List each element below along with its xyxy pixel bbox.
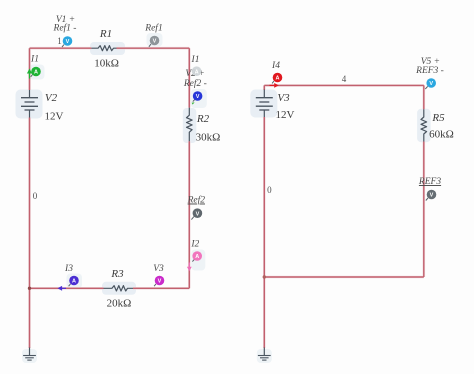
resistor R1 tile <box>90 42 125 55</box>
probe I3 tile <box>67 274 83 289</box>
ground left <box>23 348 36 361</box>
svg-text:V: V <box>66 39 70 45</box>
wire right circuit top <box>264 84 424 86</box>
svg-text:60kΩ: 60kΩ <box>429 129 454 141</box>
ground right <box>258 348 271 361</box>
svg-text:REF3: REF3 <box>418 177 441 187</box>
node junction left circuit <box>28 287 31 290</box>
resistor R1 <box>91 28 119 70</box>
ghost probe <box>192 66 202 76</box>
ground left tile <box>22 349 37 363</box>
svg-text:0: 0 <box>267 185 272 195</box>
svg-text:A: A <box>276 76 280 82</box>
svg-text:A: A <box>195 69 199 75</box>
resistor R5 <box>421 109 454 141</box>
svg-text:R2: R2 <box>196 113 210 125</box>
wire left circuit bottom <box>30 287 190 289</box>
wire left circuit left vertical <box>29 48 31 348</box>
current arrow I3 <box>58 286 67 291</box>
voltage source V3 tile <box>250 90 277 118</box>
svg-text:12V: 12V <box>276 109 295 121</box>
probe Ref2 <box>191 208 202 219</box>
svg-text:R5: R5 <box>431 112 445 124</box>
svg-text:A: A <box>34 70 38 76</box>
svg-text:0: 0 <box>33 191 38 201</box>
current arrow I1 <box>27 69 32 79</box>
ground right tile <box>257 349 272 363</box>
probe V5 <box>425 78 436 89</box>
svg-text:V: V <box>153 39 157 45</box>
resistor R2 <box>187 108 221 144</box>
probe I1 tile <box>29 65 45 80</box>
svg-text:1: 1 <box>57 36 62 46</box>
svg-text:REF3 -: REF3 - <box>415 66 444 76</box>
svg-text:V: V <box>196 211 200 217</box>
svg-text:I4: I4 <box>271 61 280 71</box>
probe V1 <box>62 36 72 47</box>
svg-text:Ref2 -: Ref2 - <box>183 78 207 89</box>
svg-text:R3: R3 <box>110 268 124 280</box>
voltage source V2 <box>21 90 64 122</box>
probe V2 <box>192 91 203 104</box>
svg-text:V3: V3 <box>153 264 164 274</box>
probe REF3 <box>426 190 437 201</box>
voltage source V2 tile <box>16 90 43 119</box>
svg-text:I2: I2 <box>190 239 199 249</box>
wire left circuit right vertical <box>188 48 190 288</box>
svg-text:20kΩ: 20kΩ <box>107 298 132 310</box>
svg-text:V: V <box>429 81 433 87</box>
wire right circuit bottom <box>264 276 424 278</box>
probe I4 <box>272 73 282 84</box>
resistor R2 tile <box>183 108 197 143</box>
svg-text:4: 4 <box>342 74 347 84</box>
svg-text:V: V <box>430 193 434 199</box>
voltage source V3 <box>256 90 295 121</box>
svg-text:12V: 12V <box>45 110 64 122</box>
probe I2 <box>192 251 202 261</box>
probe Ref1 tile <box>147 33 163 47</box>
svg-text:I3: I3 <box>64 264 73 274</box>
svg-text:10kΩ: 10kΩ <box>94 58 119 70</box>
svg-text:A: A <box>195 254 199 260</box>
probe V3 <box>154 276 164 287</box>
svg-text:I1: I1 <box>191 55 200 65</box>
resistor R5 tile <box>417 109 431 142</box>
wire right circuit left vertical <box>263 85 265 348</box>
resistor R3 tile <box>102 282 136 295</box>
wire left circuit top <box>30 47 190 49</box>
svg-text:V2: V2 <box>45 92 58 104</box>
svg-text:R1: R1 <box>99 28 112 40</box>
resistor R3 <box>104 268 134 310</box>
probe I3 <box>69 276 79 287</box>
probe Ref1 <box>149 36 159 47</box>
svg-text:V3: V3 <box>277 92 290 104</box>
wire halos <box>30 48 424 348</box>
svg-text:Ref1 -: Ref1 - <box>53 22 77 33</box>
current arrow I4 <box>270 83 279 88</box>
svg-text:30kΩ: 30kΩ <box>196 131 221 143</box>
svg-text:V: V <box>158 279 162 285</box>
probe I2 tile <box>191 250 205 271</box>
wire right circuit right vertical <box>423 85 425 277</box>
current arrow I2 <box>187 263 192 272</box>
svg-text:I1: I1 <box>30 55 39 65</box>
probe I1 <box>31 67 41 77</box>
svg-text:V: V <box>196 94 200 100</box>
svg-text:A: A <box>72 279 76 285</box>
node junction right circuit <box>263 275 266 278</box>
svg-text:Ref2: Ref2 <box>187 195 206 206</box>
probe V2 tile <box>191 89 207 108</box>
svg-text:Ref1: Ref1 <box>144 23 162 34</box>
